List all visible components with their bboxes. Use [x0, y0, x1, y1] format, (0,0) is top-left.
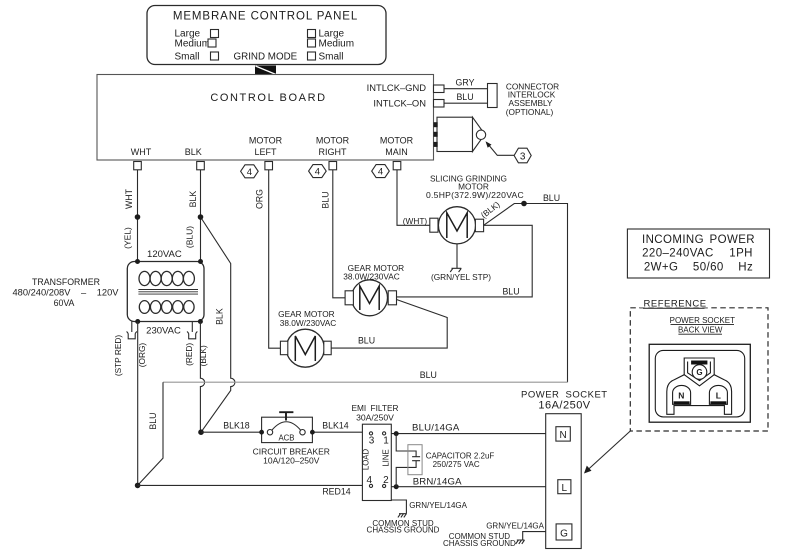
svg-text:G: G	[696, 368, 702, 377]
svg-text:BLK18: BLK18	[223, 420, 250, 430]
svg-text:TRANSFORMER: TRANSFORMER	[32, 277, 100, 287]
svg-text:BLU: BLU	[456, 92, 473, 102]
svg-text:250/275 VAC: 250/275 VAC	[433, 460, 480, 469]
svg-text:30A/250V: 30A/250V	[356, 412, 394, 422]
svg-text:BLU: BLU	[148, 412, 158, 429]
svg-text:MOTOR: MOTOR	[316, 136, 350, 146]
svg-text:Small: Small	[175, 52, 200, 63]
svg-text:BRN/14GA: BRN/14GA	[413, 476, 462, 487]
svg-text:BLU: BLU	[420, 370, 437, 380]
svg-text:LEFT: LEFT	[254, 147, 277, 157]
svg-text:(YEL): (YEL)	[123, 227, 133, 249]
svg-text:INCOMING POWER: INCOMING POWER	[642, 234, 755, 246]
svg-text:Medium: Medium	[319, 39, 355, 50]
svg-text:MOTOR: MOTOR	[380, 136, 414, 146]
svg-text:BLK: BLK	[185, 147, 202, 157]
svg-text:0.5HP(372.9W)/220VAC: 0.5HP(372.9W)/220VAC	[426, 190, 524, 200]
svg-text:ORG: ORG	[255, 189, 265, 209]
svg-text:BLU: BLU	[358, 335, 375, 345]
svg-text:2: 2	[383, 475, 389, 486]
svg-text:BLK: BLK	[215, 308, 225, 325]
svg-text:3: 3	[369, 436, 375, 447]
svg-text:L: L	[716, 390, 721, 400]
svg-text:(STP RED): (STP RED)	[113, 335, 123, 377]
svg-text:BLK: BLK	[188, 191, 198, 208]
svg-text:4: 4	[378, 167, 383, 178]
svg-text:60VA: 60VA	[54, 298, 75, 308]
svg-text:(RED): (RED)	[184, 343, 194, 366]
svg-text:GRIND MODE: GRIND MODE	[234, 52, 298, 63]
svg-text:G: G	[560, 528, 568, 539]
svg-text:16A/250V: 16A/250V	[538, 399, 590, 411]
svg-text:LINE: LINE	[381, 449, 390, 466]
svg-text:GRN/YEL/14GA: GRN/YEL/14GA	[409, 501, 467, 510]
svg-text:BLU: BLU	[321, 191, 331, 208]
svg-text:POWER SOCKET: POWER SOCKET	[670, 316, 735, 325]
svg-text:(BLK): (BLK)	[198, 345, 208, 366]
svg-text:GRN/YEL/14GA: GRN/YEL/14GA	[486, 521, 544, 530]
svg-text:WHT: WHT	[124, 188, 134, 209]
svg-text:2W+G 50/60 Hz: 2W+G 50/60 Hz	[644, 261, 753, 273]
svg-text:230VAC: 230VAC	[146, 325, 181, 336]
svg-text:L: L	[562, 483, 568, 494]
svg-text:(WHT): (WHT)	[403, 216, 428, 226]
svg-text:INTLCK–ON: INTLCK–ON	[373, 98, 426, 109]
svg-text:(OPTIONAL): (OPTIONAL)	[506, 107, 554, 117]
svg-text:CONTROL BOARD: CONTROL BOARD	[210, 92, 326, 104]
svg-text:BLK14: BLK14	[322, 421, 349, 431]
svg-text:BACK VIEW: BACK VIEW	[678, 325, 723, 334]
svg-text:ACB: ACB	[278, 433, 294, 442]
svg-text:(BLU): (BLU)	[185, 226, 195, 248]
svg-text:4: 4	[315, 167, 320, 178]
svg-text:GRY: GRY	[456, 78, 475, 88]
svg-text:BLU/14GA: BLU/14GA	[412, 423, 460, 434]
svg-text:CHASSIS GROUND: CHASSIS GROUND	[367, 526, 440, 535]
svg-text:10A/120–250V: 10A/120–250V	[263, 455, 320, 465]
svg-text:220–240VAC 1PH: 220–240VAC 1PH	[642, 248, 753, 260]
svg-text:1: 1	[383, 436, 389, 447]
svg-text:CHASSIS GROUND: CHASSIS GROUND	[443, 539, 516, 548]
svg-text:N: N	[678, 391, 684, 401]
svg-text:38.0W/230VAC: 38.0W/230VAC	[280, 318, 337, 328]
svg-text:INTLCK–GND: INTLCK–GND	[367, 82, 427, 93]
svg-text:BLU: BLU	[543, 193, 560, 203]
svg-text:3: 3	[520, 151, 526, 162]
svg-text:(ORG): (ORG)	[137, 343, 147, 368]
svg-text:MEMBRANE CONTROL PANEL: MEMBRANE CONTROL PANEL	[173, 11, 358, 23]
svg-text:RIGHT: RIGHT	[319, 147, 348, 157]
svg-text:120VAC: 120VAC	[147, 249, 182, 260]
svg-text:BLU: BLU	[502, 287, 519, 297]
svg-text:4: 4	[247, 167, 252, 178]
svg-text:Small: Small	[319, 52, 344, 63]
svg-text:Medium: Medium	[175, 39, 211, 50]
svg-text:WHT: WHT	[131, 147, 152, 157]
svg-text:REFERENCE: REFERENCE	[644, 298, 707, 309]
svg-text:MOTOR: MOTOR	[249, 136, 283, 146]
svg-text:4: 4	[367, 475, 373, 486]
svg-text:EMI FILTER: EMI FILTER	[351, 403, 398, 413]
svg-text:LOAD: LOAD	[362, 449, 371, 471]
svg-text:(GRN/YEL STP): (GRN/YEL STP)	[431, 272, 491, 282]
svg-text:N: N	[559, 430, 566, 441]
svg-text:480/240/208V – 120V: 480/240/208V – 120V	[13, 288, 120, 298]
svg-text:MAIN: MAIN	[385, 147, 408, 157]
svg-text:RED14: RED14	[322, 487, 350, 497]
